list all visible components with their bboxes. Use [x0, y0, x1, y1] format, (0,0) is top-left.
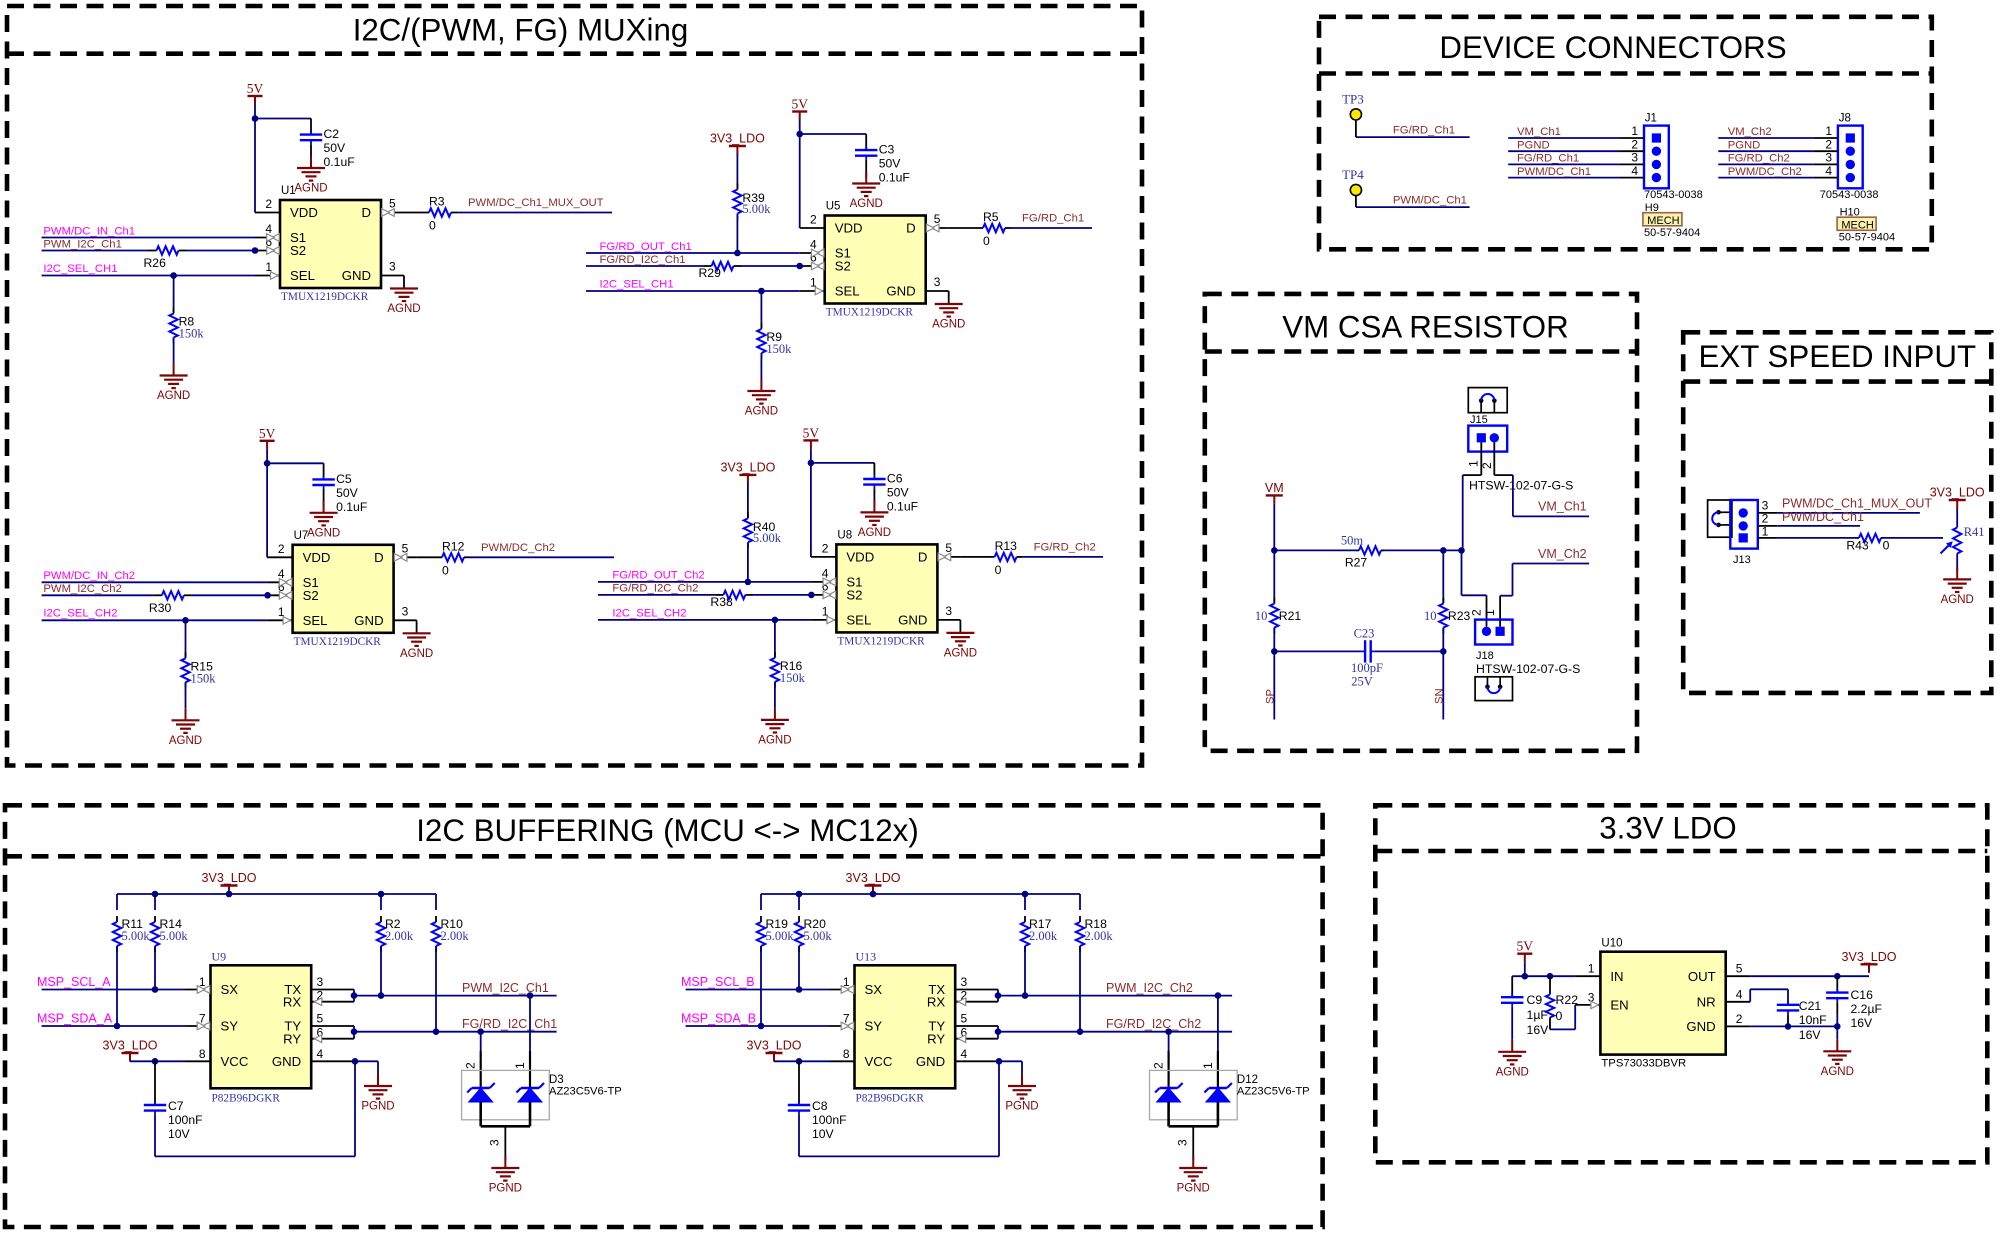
svg-text:VCC: VCC [221, 1054, 249, 1069]
svg-text:I2C/(PWM, FG) MUXing: I2C/(PWM, FG) MUXing [353, 13, 689, 48]
power 3V3_LDO (LDO out) [1842, 950, 1897, 973]
resistor R12 (output) [394, 539, 614, 577]
svg-text:AGND: AGND [944, 647, 977, 659]
svg-text:R27: R27 [1345, 556, 1368, 570]
svg-text:SEL: SEL [290, 268, 315, 283]
svg-text:I2C_SEL_CH1: I2C_SEL_CH1 [600, 278, 674, 290]
mux IC U7 TMUX1219DCKR [278, 530, 409, 648]
wire TY/RY U9 [311, 1026, 357, 1043]
buffer IC U13 P82B96DGKR [843, 949, 968, 1104]
net label FG/RD_Ch1 [1022, 213, 1084, 225]
svg-text:DEVICE CONNECTORS: DEVICE CONNECTORS [1439, 30, 1786, 65]
svg-text:C7: C7 [168, 1099, 184, 1113]
resistor R22 0 (EN) [1546, 976, 1601, 1029]
power 3V3_LDO rail U13 [846, 871, 901, 894]
svg-text:EXT SPEED INPUT: EXT SPEED INPUT [1698, 339, 1976, 374]
svg-text:0: 0 [995, 563, 1002, 577]
mux IC U1 TMUX1219DCKR [265, 185, 396, 303]
svg-text:MECH: MECH [1647, 215, 1679, 227]
ground AGND under R15 [169, 708, 202, 747]
resistor R26 (series S2) [42, 246, 280, 270]
wire VM node [1274, 547, 1464, 554]
wire net FG/RD_I2C_Ch2 [998, 1031, 1232, 1033]
svg-text:4: 4 [1825, 164, 1832, 178]
svg-text:D12: D12 [1237, 1074, 1258, 1086]
wire SX U13 [686, 986, 855, 994]
svg-text:5.00k: 5.00k [804, 929, 833, 943]
svg-text:1: 1 [1201, 1062, 1215, 1069]
svg-text:50V: 50V [336, 486, 359, 500]
svg-text:2: 2 [1631, 137, 1638, 151]
svg-text:RY: RY [927, 1031, 945, 1046]
svg-text:PWM/DC_Ch1: PWM/DC_Ch1 [1393, 195, 1467, 207]
svg-text:3: 3 [945, 604, 952, 618]
net label I2C_SEL_CH2 [43, 608, 117, 620]
svg-text:5V: 5V [259, 426, 276, 441]
wire GND U13 [955, 1058, 1022, 1074]
svg-text:RX: RX [283, 994, 302, 1009]
svg-text:5: 5 [961, 1012, 968, 1026]
resistor R13 (output) [937, 539, 1103, 577]
svg-text:3: 3 [1175, 1139, 1189, 1146]
net label PWM/DC_Ch2 [481, 542, 555, 554]
connector J13 [1730, 500, 1758, 566]
svg-text:J13: J13 [1733, 554, 1751, 566]
svg-text:FG/RD_I2C_Ch1: FG/RD_I2C_Ch1 [600, 254, 686, 266]
mech box J8 [1837, 217, 1895, 243]
svg-text:100nF: 100nF [168, 1113, 203, 1127]
wire VM vertical [1271, 504, 1278, 554]
svg-text:2: 2 [1736, 1012, 1743, 1026]
net label FG/RD_Ch2 [1034, 541, 1096, 553]
svg-text:VM CSA RESISTOR: VM CSA RESISTOR [1282, 310, 1568, 345]
node SP [1265, 651, 1277, 719]
svg-text:D: D [906, 221, 916, 236]
wire net PWM_I2C_Ch2 [998, 995, 1232, 997]
section box I2C/(PWM,FG) MUXing [7, 6, 1142, 766]
svg-text:R23: R23 [1448, 609, 1471, 623]
svg-text:R41: R41 [1964, 525, 1985, 539]
section box 3.3V LDO [1375, 805, 1987, 1162]
resistor R27 50m [1341, 534, 1384, 570]
svg-text:3: 3 [934, 275, 941, 289]
wire to D3 pin2 [477, 1028, 484, 1088]
connector J1 [1644, 113, 1669, 189]
ground PGND under D12 [1177, 1156, 1210, 1195]
part number J8 [1820, 189, 1879, 218]
svg-text:C2: C2 [324, 127, 340, 141]
wire GND pin U1 [381, 276, 404, 289]
svg-text:8: 8 [199, 1047, 206, 1061]
svg-text:AGND: AGND [400, 648, 433, 660]
svg-text:SY: SY [221, 1019, 239, 1034]
net label FG/RD_I2C_Ch2 [1106, 1017, 1201, 1031]
svg-text:AGND: AGND [1821, 1066, 1854, 1078]
svg-text:GND: GND [916, 1054, 945, 1069]
svg-text:3V3_LDO: 3V3_LDO [1842, 950, 1897, 964]
wire J13 pin3 [1758, 499, 1920, 513]
svg-text:AGND: AGND [1941, 594, 1974, 606]
potentiometer R41 [1941, 509, 1985, 572]
ground AGND under C9 [1496, 1040, 1529, 1079]
net label PWM/DC_IN_Ch2 [43, 570, 135, 582]
svg-text:VM_Ch2: VM_Ch2 [1728, 126, 1772, 138]
ground AGND under C3 [850, 172, 883, 211]
net label VM_Ch2 [1538, 547, 1587, 561]
svg-text:3: 3 [317, 975, 324, 989]
svg-text:2.00k: 2.00k [1029, 929, 1058, 943]
wire GND (LDO) [1726, 1023, 1841, 1039]
svg-text:3.3V LDO: 3.3V LDO [1599, 811, 1736, 846]
wire to D3 pin1 [527, 992, 534, 1088]
svg-text:S2: S2 [290, 243, 306, 258]
svg-text:R29: R29 [699, 266, 722, 280]
svg-text:FG/RD_Ch1: FG/RD_Ch1 [1517, 153, 1579, 165]
ground PGND at U13 [1005, 1074, 1038, 1113]
svg-text:2.00k: 2.00k [1085, 929, 1114, 943]
resistor R2 (pullup) [377, 891, 414, 999]
svg-text:PWM/DC_Ch1: PWM/DC_Ch1 [1517, 166, 1591, 178]
svg-text:0: 0 [983, 234, 990, 248]
svg-text:0: 0 [1883, 539, 1890, 553]
svg-text:GND: GND [1686, 1019, 1715, 1034]
svg-text:U8: U8 [837, 529, 852, 541]
svg-text:1: 1 [1631, 124, 1638, 138]
net label VM_Ch1 [1538, 500, 1587, 514]
svg-text:GND: GND [272, 1054, 301, 1069]
wire C7 bottom loop U9 [155, 1061, 355, 1156]
svg-text:U13: U13 [856, 949, 877, 963]
resistor R16 (SEL pulldown) [771, 620, 806, 708]
svg-text:5: 5 [1736, 962, 1743, 976]
svg-text:D: D [374, 550, 384, 565]
svg-text:S2: S2 [835, 259, 851, 274]
svg-text:5V: 5V [791, 97, 808, 112]
ground PGND under D3 [489, 1156, 522, 1195]
svg-text:R5: R5 [983, 210, 999, 224]
capacitor C2 [300, 119, 355, 170]
ground AGND at U8 [944, 633, 977, 660]
wire to J18 [1462, 550, 1487, 626]
wire 5V to VDD U5 [796, 121, 866, 229]
svg-text:16V: 16V [1851, 1016, 1874, 1030]
svg-text:AGND: AGND [387, 303, 420, 315]
svg-text:MSP_SCL_B: MSP_SCL_B [681, 975, 755, 989]
zener diode pair D12 AZ23C5V6-TP [1150, 1062, 1310, 1156]
header J18 HTSW-102-07-G-S [1470, 609, 1581, 676]
svg-text:J8: J8 [1839, 113, 1851, 125]
resistor R17 (pullup) [1021, 891, 1058, 999]
wire TY/RY U13 [955, 1026, 1001, 1043]
svg-text:5.00k: 5.00k [753, 531, 782, 545]
power 5V U8 [803, 425, 820, 449]
svg-text:RY: RY [283, 1031, 301, 1046]
svg-text:150k: 150k [191, 671, 217, 685]
svg-text:D3: D3 [549, 1074, 564, 1086]
svg-text:3: 3 [961, 975, 968, 989]
svg-text:VDD: VDD [846, 550, 874, 565]
wire J18 pin1 to VM_Ch2 [1500, 564, 1589, 627]
power 5V U7 [259, 426, 276, 450]
power 3V3_LDO VCC U9 [103, 1039, 158, 1062]
wires J1 [1508, 124, 1644, 178]
wire J13 pin2 [1758, 512, 1860, 526]
svg-text:16V: 16V [1799, 1028, 1822, 1042]
svg-text:2: 2 [1470, 609, 1484, 616]
svg-text:U7: U7 [294, 530, 309, 542]
resistor R38 (series S2) [598, 591, 836, 609]
svg-text:3: 3 [1762, 499, 1769, 513]
svg-text:AGND: AGND [850, 198, 883, 210]
header J15 HTSW-102-07-G-S [1467, 414, 1574, 492]
svg-text:VM_Ch2: VM_Ch2 [1538, 547, 1587, 561]
svg-text:HTSW-102-07-G-S: HTSW-102-07-G-S [1469, 479, 1573, 493]
svg-text:C9: C9 [1527, 993, 1543, 1007]
svg-text:AGND: AGND [294, 183, 327, 195]
svg-text:PGND: PGND [1517, 139, 1550, 151]
wire J15 pin2 to VM_Ch1 [1494, 475, 1589, 516]
resistor R39 (S1 pullup) [733, 154, 771, 256]
svg-text:MSP_SCL_A: MSP_SCL_A [37, 975, 111, 989]
svg-text:3: 3 [1631, 151, 1638, 165]
wire NR [1726, 989, 1788, 1005]
resistor R23 10 [1424, 550, 1470, 651]
svg-text:0: 0 [429, 219, 436, 233]
net label PWM/DC_Ch1_MUX_OUT [468, 197, 604, 209]
power 5V U5 [791, 97, 808, 121]
net label MSP_SDA_B [681, 1012, 756, 1026]
svg-text:FG/RD_I2C_Ch2: FG/RD_I2C_Ch2 [1106, 1017, 1201, 1031]
net label FG/RD_Ch1 [1393, 125, 1455, 137]
capacitor C7 100nF [144, 1061, 203, 1156]
svg-text:PGND: PGND [1005, 1101, 1038, 1113]
net label FG/RD_OUT_Ch1 [600, 241, 692, 253]
svg-text:PWM/DC_IN_Ch2: PWM/DC_IN_Ch2 [43, 570, 135, 582]
wire J13 pin1 [1758, 524, 1943, 538]
svg-text:1µF: 1µF [1527, 1008, 1549, 1022]
svg-text:FG/RD_I2C_Ch2: FG/RD_I2C_Ch2 [612, 583, 698, 595]
svg-text:I2C_SEL_CH2: I2C_SEL_CH2 [43, 608, 117, 620]
resistor R10 (pullup) [432, 894, 470, 1035]
svg-text:PWM/DC_Ch1_MUX_OUT: PWM/DC_Ch1_MUX_OUT [1782, 496, 1932, 510]
svg-text:4: 4 [1736, 987, 1743, 1001]
wire D12 pin3 [1192, 1156, 1194, 1160]
svg-text:5V: 5V [247, 81, 264, 96]
svg-text:SY: SY [865, 1019, 883, 1034]
wire SX U9 [42, 986, 211, 994]
svg-text:50V: 50V [324, 141, 347, 155]
svg-text:2: 2 [464, 1062, 478, 1069]
svg-text:VDD: VDD [303, 550, 331, 565]
power 3V3_LDO (R41) [1930, 486, 1985, 509]
svg-text:3V3_LDO: 3V3_LDO [202, 871, 257, 885]
svg-text:VDD: VDD [835, 221, 863, 236]
net label PWM/DC_IN_Ch1 [43, 225, 135, 237]
svg-text:PWM_I2C_Ch2: PWM_I2C_Ch2 [43, 583, 121, 595]
svg-text:3: 3 [402, 604, 409, 618]
wire TX/RX U9 [311, 990, 357, 1006]
net label FG/RD_I2C_Ch2 [612, 583, 698, 595]
svg-text:8: 8 [843, 1047, 850, 1061]
svg-text:2.00k: 2.00k [385, 929, 414, 943]
ground AGND at U5 [932, 304, 965, 331]
svg-text:PWM/DC_IN_Ch1: PWM/DC_IN_Ch1 [43, 225, 135, 237]
svg-text:150k: 150k [179, 327, 205, 341]
svg-text:5.00k: 5.00k [742, 202, 771, 216]
svg-text:GND: GND [342, 268, 371, 283]
capacitor C16 2.2uF [1826, 976, 1882, 1030]
svg-text:IN: IN [1610, 969, 1623, 984]
svg-text:PWM/DC_Ch2: PWM/DC_Ch2 [481, 542, 555, 554]
svg-text:C21: C21 [1799, 999, 1822, 1013]
svg-text:2: 2 [1152, 1062, 1166, 1069]
svg-text:PWM_I2C_Ch2: PWM_I2C_Ch2 [1106, 981, 1193, 995]
svg-text:TMUX1219DCKR: TMUX1219DCKR [281, 291, 369, 303]
svg-text:FG/RD_Ch1: FG/RD_Ch1 [1393, 125, 1455, 137]
resistor R8 (SEL pulldown) [169, 276, 204, 364]
wire GND pin U7 [394, 620, 417, 633]
wire SEL input U5 [586, 287, 825, 295]
wire S1 input U8 [598, 578, 836, 586]
svg-text:SEL: SEL [303, 613, 328, 628]
net label FG/RD_I2C_Ch1 [462, 1017, 557, 1031]
svg-text:PWM/DC_Ch2: PWM/DC_Ch2 [1728, 166, 1802, 178]
net label PWM_I2C_Ch1 [462, 981, 549, 995]
svg-text:1: 1 [1762, 524, 1769, 538]
power 5V U1 [247, 81, 264, 105]
svg-text:U9: U9 [212, 949, 227, 963]
net label MSP_SDA_A [37, 1012, 113, 1026]
jumper shunt cap J13 [1708, 500, 1732, 537]
resistor R29 (series S2) [586, 262, 825, 280]
svg-text:VM: VM [1265, 481, 1284, 495]
svg-text:P82B96DGKR: P82B96DGKR [856, 1092, 925, 1104]
svg-text:50V: 50V [887, 485, 910, 499]
resistor R5 (output) [926, 210, 1092, 248]
svg-text:EN: EN [1610, 998, 1628, 1013]
wire 5V to VDD U8 [808, 449, 875, 557]
svg-text:OUT: OUT [1688, 969, 1716, 984]
svg-text:150k: 150k [780, 671, 806, 685]
svg-text:SX: SX [865, 982, 883, 997]
svg-text:AGND: AGND [307, 527, 340, 539]
svg-text:PGND: PGND [1177, 1183, 1210, 1195]
net label PWM_I2C_Ch2 [1106, 981, 1193, 995]
power 3V3_LDO VCC U13 [747, 1039, 802, 1062]
net label I2C_SEL_CH1 [43, 263, 117, 275]
svg-text:16V: 16V [1527, 1023, 1550, 1037]
svg-text:50m: 50m [1341, 534, 1364, 548]
svg-text:GND: GND [898, 613, 927, 628]
svg-text:TMUX1219DCKR: TMUX1219DCKR [837, 635, 925, 647]
wire J15 pin1 [1463, 475, 1482, 550]
svg-text:S2: S2 [846, 588, 862, 603]
wire D3 pin3 [504, 1156, 506, 1160]
svg-text:U5: U5 [826, 201, 841, 213]
resistor R19 (pullup) [757, 894, 795, 1026]
svg-text:J1: J1 [1645, 113, 1657, 125]
wire SEL input U7 [42, 617, 293, 625]
wire SY U13 [686, 1022, 855, 1030]
svg-text:3V3_LDO: 3V3_LDO [720, 460, 775, 474]
svg-text:2: 2 [1825, 137, 1832, 151]
svg-text:S2: S2 [303, 588, 319, 603]
svg-text:GND: GND [354, 613, 383, 628]
svg-text:R38: R38 [710, 595, 733, 609]
svg-text:J18: J18 [1476, 650, 1494, 662]
svg-text:5.00k: 5.00k [160, 929, 189, 943]
svg-text:0: 0 [442, 563, 449, 577]
capacitor C3 [855, 134, 910, 185]
net label MSP_SCL_A [37, 975, 111, 989]
wire 3V3 rail U13 [761, 891, 1080, 898]
svg-text:AGND: AGND [157, 390, 190, 402]
section box EXT SPEED INPUT [1683, 332, 1991, 693]
svg-text:150k: 150k [766, 342, 792, 356]
capacitor C6 [863, 463, 918, 514]
svg-text:R30: R30 [149, 601, 172, 615]
svg-text:5V: 5V [803, 425, 820, 440]
net label PWM/DC_Ch1_MUX_OUT (ext) [1782, 496, 1932, 510]
svg-text:10: 10 [1255, 609, 1268, 623]
svg-text:4: 4 [961, 1047, 968, 1061]
net labels J8 [1728, 126, 1802, 178]
wire VCC U13 [774, 1058, 855, 1065]
wire GND pin U5 [926, 291, 949, 304]
capacitor C21 10nF [1777, 999, 1827, 1042]
svg-text:PWM_I2C_Ch1: PWM_I2C_Ch1 [462, 981, 549, 995]
ground PGND at U9 [361, 1074, 394, 1113]
svg-text:4: 4 [1631, 164, 1638, 178]
resistor R9 (SEL pulldown) [757, 291, 792, 379]
svg-text:FG/RD_Ch2: FG/RD_Ch2 [1034, 541, 1096, 553]
svg-text:2.00k: 2.00k [441, 929, 470, 943]
testpoint TP4 [1342, 167, 1364, 196]
wire GND pin U8 [937, 620, 960, 633]
svg-text:P82B96DGKR: P82B96DGKR [212, 1092, 281, 1104]
svg-text:HTSW-102-07-G-S: HTSW-102-07-G-S [1476, 662, 1580, 676]
svg-text:FG/RD_Ch1: FG/RD_Ch1 [1022, 213, 1084, 225]
svg-text:C8: C8 [812, 1099, 828, 1113]
svg-text:10: 10 [1424, 609, 1437, 623]
svg-text:0.1uF: 0.1uF [336, 500, 367, 514]
wire to D12 pin1 [1215, 992, 1222, 1088]
power 3V3_LDO R39 [710, 132, 765, 155]
connector J8 [1838, 113, 1863, 189]
svg-text:1: 1 [1483, 609, 1497, 616]
wire IN node [1512, 963, 1600, 980]
svg-text:R22: R22 [1556, 993, 1579, 1007]
svg-text:2: 2 [1480, 462, 1494, 469]
wire to D12 pin2 [1165, 1028, 1172, 1088]
svg-text:VDD: VDD [290, 205, 318, 220]
svg-text:SEL: SEL [835, 284, 860, 299]
svg-text:R12: R12 [442, 539, 465, 553]
wire TP4 [1356, 196, 1470, 208]
net label MSP_SCL_B [681, 975, 755, 989]
svg-text:R43: R43 [1846, 539, 1869, 553]
power VM [1265, 481, 1284, 504]
svg-text:5: 5 [402, 541, 409, 555]
svg-text:PWM/DC_Ch1_MUX_OUT: PWM/DC_Ch1_MUX_OUT [468, 197, 604, 209]
svg-text:R21: R21 [1279, 609, 1302, 623]
power 3V3_LDO R40 [720, 460, 775, 483]
wire C7 bottom loop U13 [799, 1061, 999, 1156]
svg-text:VM_Ch1: VM_Ch1 [1517, 126, 1561, 138]
svg-text:AGND: AGND [758, 734, 791, 746]
svg-text:100pF: 100pF [1351, 661, 1383, 675]
wire SEL input U8 [598, 616, 836, 624]
